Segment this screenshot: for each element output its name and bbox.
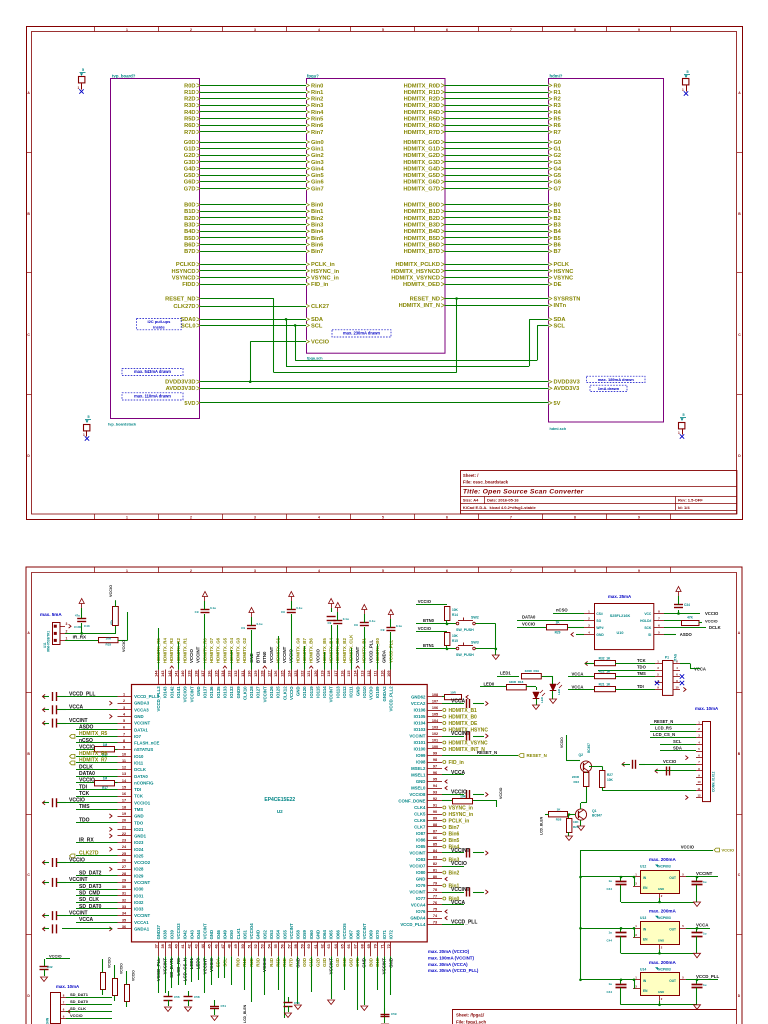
svg-text:0.1u: 0.1u [343, 617, 349, 621]
svg-text:HSYNC_in: HSYNC_in [311, 269, 340, 275]
labels fpga right control pins [441, 297, 444, 301]
svg-text:SW3: SW3 [471, 641, 479, 645]
wire DVDD3V3D rail [200, 381, 549, 383]
svg-text:CLK27: CLK27 [311, 304, 329, 310]
svg-text:13: 13 [122, 772, 126, 776]
wire VCC to VCCIO with cap C34 [664, 613, 700, 615]
svg-text:TCK: TCK [134, 794, 144, 799]
svg-text:B: B [27, 212, 30, 216]
svg-text:VCCINT: VCCINT [269, 646, 274, 663]
svg-text:TDI: TDI [79, 784, 88, 790]
svg-text:HDMITX_B3D: HDMITX_B3D [404, 223, 440, 229]
svg-text:86: 86 [433, 836, 437, 840]
svg-text:9: 9 [638, 569, 640, 573]
svg-text:110: 110 [380, 671, 384, 677]
svg-text:IO21: IO21 [134, 827, 144, 832]
svg-text:69: 69 [367, 944, 371, 948]
svg-text:Bin6: Bin6 [449, 831, 460, 837]
svg-text:8: 8 [574, 569, 576, 573]
svg-text:VCCIO: VCCIO [122, 640, 126, 652]
wire RESET_ND net [200, 298, 274, 300]
svg-text:SW_PUSH: SW_PUSH [456, 628, 474, 632]
svg-text:HDMITX_R5: HDMITX_R5 [79, 731, 108, 737]
svg-text:135: 135 [214, 671, 218, 677]
svg-text:IO85: IO85 [416, 844, 426, 849]
svg-text:2: 2 [190, 515, 192, 519]
svg-text:HDMITX_B7D: HDMITX_B7D [404, 249, 440, 255]
svg-text:C9: C9 [195, 610, 199, 614]
svg-text:VCCINT: VCCINT [69, 718, 88, 724]
top small arrows [170, 666, 174, 668]
svg-text:IO105: IO105 [414, 714, 426, 719]
note max 110mA drawn [122, 393, 183, 400]
capacitor C58 [188, 991, 190, 997]
svg-text:HDMITX_G6: HDMITX_G6 [216, 637, 221, 663]
svg-text:hdmi.sch: hdmi.sch [550, 427, 567, 431]
svg-text:142: 142 [168, 671, 172, 677]
svg-text:74: 74 [433, 914, 438, 918]
svg-text:5: 5 [658, 630, 660, 634]
svg-text:DCLK: DCLK [79, 764, 93, 770]
svg-text:C: C [738, 333, 741, 337]
svg-text:VCCIO8: VCCIO8 [409, 792, 426, 797]
svg-text:I2C pull-ups: I2C pull-ups [147, 319, 171, 324]
JTAG header P1 [663, 661, 674, 696]
svg-text:VCCA2: VCCA2 [411, 701, 426, 706]
svg-text:7: 7 [63, 1000, 65, 1004]
svg-text:124: 124 [287, 670, 291, 677]
svg-text:10: 10 [675, 685, 679, 689]
svg-text:R26: R26 [573, 825, 579, 829]
svg-text:tvp_board?: tvp_board? [112, 74, 136, 79]
svg-text:81: 81 [433, 869, 437, 873]
svg-text:R7D: R7D [289, 958, 294, 967]
svg-text:Sheet: /: Sheet: / [463, 473, 479, 478]
svg-text:HSYNC: HSYNC [554, 269, 574, 275]
svg-text:VCCINT: VCCINT [451, 887, 470, 893]
svg-text:0.1u: 0.1u [257, 622, 263, 626]
svg-text:D: D [738, 994, 741, 998]
svg-text:GND: GND [416, 779, 426, 784]
svg-text:IO28: IO28 [134, 867, 144, 872]
resistor R27 base Q2 [600, 771, 605, 788]
svg-text:6: 6 [658, 623, 660, 627]
svg-text:1: 1 [635, 873, 637, 877]
svg-text:VCCINT: VCCINT [329, 686, 334, 702]
svg-text:50: 50 [241, 944, 245, 948]
svg-text:IO54: IO54 [276, 929, 281, 939]
svg-text:Gin4: Gin4 [311, 167, 324, 173]
svg-text:B0: B0 [554, 203, 561, 209]
svg-text:GND: GND [596, 633, 604, 637]
svg-text:Gin5: Gin5 [311, 173, 324, 179]
svg-text:DATA0: DATA0 [522, 615, 536, 620]
wires input U14 [579, 979, 582, 982]
svg-text:GND9: GND9 [236, 686, 241, 699]
svg-text:113: 113 [360, 671, 364, 677]
svg-text:IO30: IO30 [134, 887, 144, 892]
note 1mA drawn [590, 385, 627, 391]
svg-text:96: 96 [433, 771, 437, 775]
svg-text:G7: G7 [554, 186, 562, 192]
svg-text:3: 3 [66, 622, 68, 626]
svg-text:11: 11 [122, 759, 126, 763]
svg-text:5: 5 [682, 412, 685, 417]
svg-text:5: 5 [682, 924, 684, 928]
svg-text:G4D: G4D [184, 167, 196, 173]
svg-text:SD_DAT2: SD_DAT2 [79, 871, 102, 877]
svg-text:GNDA3: GNDA3 [134, 701, 150, 706]
svg-text:IO38: IO38 [163, 929, 168, 939]
svg-text:VCCA1: VCCA1 [134, 920, 149, 925]
capacitor top area [204, 614, 206, 670]
svg-text:71: 71 [380, 944, 384, 948]
svg-text:DCLK: DCLK [134, 767, 147, 772]
svg-text:G2D: G2D [315, 958, 320, 967]
svg-text:P1: P1 [665, 656, 669, 660]
svg-text:B1: B1 [554, 209, 561, 215]
svg-text:IO10: IO10 [134, 754, 144, 759]
svg-text:VCCINT: VCCINT [355, 646, 360, 663]
svg-text:32: 32 [122, 898, 126, 902]
svg-text:VCCINT: VCCINT [196, 646, 201, 663]
svg-text:IO42: IO42 [183, 929, 188, 939]
svg-text:EN: EN [643, 937, 648, 941]
svg-text:90: 90 [433, 810, 437, 814]
svg-text:VCCA: VCCA [451, 770, 466, 776]
svg-text:VCCIO: VCCIO [722, 848, 735, 853]
svg-text:R28: R28 [556, 818, 562, 822]
svg-text:EN: EN [643, 989, 648, 993]
svg-text:VCCIO: VCCIO [69, 857, 85, 863]
svg-text:VCCIO: VCCIO [681, 845, 695, 850]
SD connector P3 [51, 993, 61, 1024]
svg-text:IO29: IO29 [134, 873, 144, 878]
input capacitor U13 [620, 927, 623, 930]
svg-text:BTN0: BTN0 [262, 651, 267, 663]
svg-text:VCCIO: VCCIO [418, 626, 432, 631]
svg-text:CLK12: CLK12 [282, 686, 287, 700]
svg-text:HDMITX_G1: HDMITX_G1 [275, 637, 280, 663]
svg-text:VCCINT: VCCINT [696, 871, 713, 876]
svg-text:136: 136 [208, 671, 212, 677]
wire SI ASDO [664, 634, 676, 636]
junction SCL [294, 324, 297, 327]
svg-text:VCCA: VCCA [572, 684, 584, 689]
svg-text:IO120: IO120 [302, 686, 307, 698]
svg-text:9: 9 [638, 515, 640, 519]
svg-text:IO33: IO33 [134, 907, 144, 912]
svg-text:R1D: R1D [184, 90, 195, 96]
svg-text:G5: G5 [554, 173, 562, 179]
svg-text:NCP603: NCP603 [658, 916, 671, 920]
svg-text:141: 141 [174, 671, 178, 677]
svg-text:max. 20mA (VCCIO): max. 20mA (VCCIO) [428, 949, 470, 954]
svg-text:FIDD: FIDD [182, 282, 195, 288]
svg-text:G1: G1 [554, 147, 562, 153]
svg-text:nCSO: nCSO [79, 738, 93, 744]
input capacitor U12 [620, 876, 623, 879]
svg-text:54: 54 [267, 943, 271, 948]
svg-text:5V: 5V [554, 401, 561, 407]
svg-text:2: 2 [661, 945, 663, 949]
svg-text:4: 4 [123, 712, 126, 716]
svg-text:HDMITX_VSYNCD: HDMITX_VSYNCD [391, 275, 440, 281]
capacitor C53 [288, 997, 290, 1003]
svg-text:R3D: R3D [256, 958, 261, 967]
svg-text:A: A [27, 91, 30, 95]
svg-text:HDMITX_G2D: HDMITX_G2D [403, 153, 440, 159]
U2 right pin stubs and numbers [428, 696, 442, 698]
svg-text:SO: SO [596, 619, 601, 623]
svg-text:IO25: IO25 [134, 854, 144, 859]
svg-text:Bin3: Bin3 [311, 223, 323, 229]
svg-text:IO46: IO46 [216, 929, 221, 939]
note max 543mA drawn [122, 368, 183, 375]
svg-text:10: 10 [697, 780, 701, 784]
svg-text:HDMITX_INT_N: HDMITX_INT_N [399, 303, 440, 309]
svg-text:B: B [738, 752, 741, 756]
svg-text:IO136: IO136 [209, 686, 214, 698]
svg-text:max. 100mA (VCCINT): max. 100mA (VCCINT) [428, 955, 474, 960]
LED D2 [550, 684, 557, 691]
svg-text:8: 8 [574, 515, 576, 519]
svg-text:HDMITX_B2: HDMITX_B2 [342, 638, 347, 663]
svg-text:R7D: R7D [184, 130, 195, 136]
svg-text:5: 5 [87, 414, 90, 419]
svg-text:108: 108 [432, 693, 438, 697]
svg-text:3: 3 [657, 666, 659, 670]
svg-text:57: 57 [287, 944, 291, 948]
svg-text:C9: C9 [354, 623, 358, 627]
svg-text:Bin0: Bin0 [311, 203, 323, 209]
svg-text:TMS: TMS [637, 671, 646, 676]
svg-text:IO101: IO101 [414, 740, 426, 745]
svg-text:134: 134 [221, 670, 225, 677]
svg-text:IO71: IO71 [382, 929, 387, 939]
svg-text:MSEL2: MSEL2 [411, 766, 426, 771]
svg-text:C9: C9 [281, 610, 285, 614]
svg-text:DATA0: DATA0 [134, 774, 148, 779]
svg-text:File: ossc_boardstack: File: ossc_boardstack [463, 479, 509, 484]
svg-text:C53: C53 [294, 1001, 300, 1005]
svg-text:FLASH_nCE: FLASH_nCE [134, 741, 159, 746]
svg-text:max. 5mA: max. 5mA [40, 612, 62, 617]
wire RESET_N to LCD [650, 724, 696, 726]
svg-text:75: 75 [433, 908, 437, 912]
svg-text:Size: A4: Size: A4 [463, 498, 479, 503]
svg-text:2: 2 [588, 616, 590, 620]
svg-text:21: 21 [122, 825, 126, 829]
svg-text:VSYNC_in: VSYNC_in [311, 275, 339, 281]
svg-text:VCCINT: VCCINT [134, 721, 150, 726]
svg-text:GND: GND [416, 877, 426, 882]
svg-text:IO69: IO69 [369, 929, 374, 939]
svg-text:117: 117 [334, 671, 338, 677]
resistor R26 pulldown [567, 819, 572, 833]
svg-text:GND: GND [316, 930, 321, 940]
gnd rail U13 [621, 953, 697, 955]
svg-text:9: 9 [657, 685, 659, 689]
svg-text:85: 85 [433, 843, 437, 847]
svg-text:5: 5 [682, 873, 684, 877]
labels tvp control pins [197, 297, 200, 301]
svg-text:3: 3 [635, 882, 637, 886]
svg-text:TDO: TDO [637, 665, 647, 670]
svg-text:C9: C9 [241, 626, 245, 630]
svg-text:10R: 10R [450, 690, 456, 694]
wires video bus tvp to fpga [200, 85, 306, 87]
svg-text:105: 105 [432, 713, 438, 717]
svg-text:IO135: IO135 [216, 686, 221, 698]
svg-text:220R: 220R [572, 775, 580, 779]
svg-text:HDMITX_B6D: HDMITX_B6D [404, 242, 440, 248]
svg-text:68: 68 [360, 944, 364, 948]
svg-text:C58: C58 [194, 995, 200, 999]
svg-text:IO58: IO58 [296, 929, 301, 939]
svg-text:MSEL0: MSEL0 [411, 786, 426, 791]
capacitor top area [251, 630, 253, 670]
svg-text:109: 109 [387, 671, 391, 677]
svg-text:DCLK: DCLK [709, 625, 721, 630]
svg-text:Rin6: Rin6 [311, 123, 323, 129]
svg-text:144: 144 [155, 670, 159, 677]
svg-text:40: 40 [174, 944, 178, 948]
wire Q1 emitter to gnd [580, 820, 582, 826]
svg-text:2: 2 [661, 997, 663, 1001]
svg-text:C44: C44 [606, 938, 612, 942]
svg-text:1: 1 [588, 609, 590, 613]
svg-text:BC847: BC847 [592, 814, 602, 818]
svg-text:132: 132 [234, 671, 238, 677]
wire VCCIO with resistor R29 [517, 627, 547, 629]
svg-text:IO128: IO128 [249, 686, 254, 698]
svg-text:8: 8 [123, 739, 125, 743]
note max 230mA drawn [332, 330, 391, 337]
svg-text:1: 1 [126, 515, 128, 519]
svg-text:IO23: IO23 [134, 840, 144, 845]
svg-text:36: 36 [122, 925, 126, 929]
svg-text:RESET_N: RESET_N [654, 719, 673, 724]
svg-text:HDMITX_R2D: HDMITX_R2D [404, 97, 440, 103]
svg-text:39: 39 [168, 944, 172, 948]
svg-text:VCCINT: VCCINT [282, 646, 287, 663]
svg-text:Rin5: Rin5 [311, 117, 323, 123]
svg-text:IO77: IO77 [416, 896, 426, 901]
svg-text:HDMITX_G3D: HDMITX_G3D [403, 160, 440, 166]
wire buttons to ground [495, 624, 497, 655]
svg-text:HDMITX_R6D: HDMITX_R6D [404, 123, 440, 129]
svg-text:127: 127 [267, 671, 271, 677]
capacitor top area [291, 614, 293, 670]
svg-text:12: 12 [697, 793, 701, 797]
svg-text:R0: R0 [554, 83, 561, 89]
svg-text:1u: 1u [608, 930, 612, 934]
svg-text:TCK: TCK [79, 791, 90, 797]
svg-text:IO51: IO51 [242, 929, 247, 939]
resistor R33 [99, 638, 119, 643]
svg-text:6: 6 [446, 28, 448, 32]
sheet 2 border frame [26, 567, 742, 1024]
svg-text:ASDO: ASDO [79, 725, 94, 731]
svg-text:GND: GND [296, 686, 301, 696]
svg-text:CONN: CONN [46, 1017, 50, 1024]
svg-text:CONN_01X12: CONN_01X12 [712, 771, 716, 792]
svg-text:49: 49 [234, 944, 238, 948]
svg-text:RESET_N: RESET_N [527, 753, 547, 758]
svg-text:Rin2: Rin2 [311, 97, 323, 103]
svg-text:R3D: R3D [184, 103, 195, 109]
svg-text:VCCIO: VCCIO [705, 619, 718, 624]
wire VCCIO vertical right [127, 612, 129, 640]
svg-text:VSYNC_in: VSYNC_in [449, 805, 473, 811]
U2 top pin stubs and numbers [158, 670, 160, 685]
svg-text:G3: G3 [554, 160, 562, 166]
svg-text:Q1: Q1 [592, 809, 597, 813]
svg-text:Bin4: Bin4 [311, 229, 324, 235]
svg-text:VCCIO: VCCIO [69, 798, 85, 804]
FPGA U2 body [132, 685, 428, 942]
svg-text:GND62: GND62 [411, 695, 426, 700]
svg-text:VCCIO2: VCCIO2 [134, 860, 151, 865]
svg-text:2: 2 [676, 659, 678, 663]
svg-text:HDMITX_G7D: HDMITX_G7D [403, 186, 440, 192]
svg-text:VCCA: VCCA [696, 922, 709, 927]
svg-text:Sheet: /fpga1/: Sheet: /fpga1/ [456, 1012, 485, 1017]
svg-text:47K: 47K [687, 616, 694, 620]
svg-text:Rin4: Rin4 [311, 110, 324, 116]
junction DVDD3V3 [249, 380, 252, 383]
svg-text:INTn: INTn [554, 303, 567, 309]
svg-text:1: 1 [635, 924, 637, 928]
svg-text:fpga.sch: fpga.sch [307, 357, 323, 361]
svg-text:max. 200mA: max. 200mA [649, 960, 676, 965]
svg-text:IO115: IO115 [316, 686, 321, 698]
svg-text:IO55: IO55 [282, 929, 287, 939]
svg-text:1K: 1K [555, 620, 560, 624]
svg-text:330R R18: 330R R18 [509, 680, 524, 684]
svg-text:max. 30mA (VCCA): max. 30mA (VCCA) [428, 962, 468, 967]
svg-text:58: 58 [294, 944, 298, 948]
svg-text:B: B [738, 212, 741, 216]
svg-text:5: 5 [686, 69, 689, 74]
svg-text:VCCIO4: VCCIO4 [249, 923, 254, 940]
svg-text:IO98: IO98 [416, 760, 426, 765]
svg-text:max. 189mA drawn: max. 189mA drawn [598, 377, 635, 382]
svg-text:IR_RX: IR_RX [73, 634, 87, 639]
svg-text:HDMITX_B1D: HDMITX_B1D [404, 209, 440, 215]
svg-text:LED: LED [540, 696, 544, 703]
svg-text:VCCIO: VCCIO [109, 585, 113, 597]
svg-text:IO112: IO112 [342, 686, 347, 698]
svg-text:8: 8 [658, 609, 660, 613]
svg-text:LCD_BLEN: LCD_BLEN [243, 1004, 247, 1023]
svg-text:IO114: IO114 [322, 686, 327, 698]
svg-text:R22 1K: R22 1K [599, 670, 611, 674]
svg-text:IO110: IO110 [362, 686, 367, 698]
svg-text:IO137: IO137 [203, 686, 208, 698]
svg-text:VCCA: VCCA [451, 900, 466, 906]
labels tvp right pins [197, 84, 200, 88]
svg-text:60: 60 [307, 944, 311, 948]
svg-text:VCCINT: VCCINT [451, 731, 470, 737]
svg-text:HDMITX_R0D: HDMITX_R0D [404, 83, 440, 89]
svg-text:IO113: IO113 [335, 686, 340, 698]
svg-text:VCCINT: VCCINT [203, 923, 208, 939]
capacitor C43 [81, 623, 83, 633]
svg-text:IO67: IO67 [349, 929, 354, 939]
svg-text:KiCad E.D.A. kicad 4.0.2+dfsg: KiCad E.D.A. kicad 4.0.2+dfsg1-stable [463, 505, 537, 510]
